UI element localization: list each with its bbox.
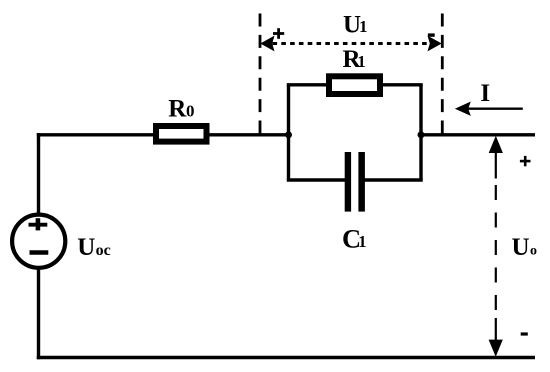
wire: parallel-section right branch vertical (419, 85, 422, 180)
svg-text:0: 0 (186, 101, 195, 120)
voltage source plus sign (29, 223, 48, 227)
svg-text:1: 1 (357, 52, 366, 71)
plus sign right (520, 160, 531, 163)
U1 arrowhead right (428, 36, 442, 52)
U1 arrowhead left (260, 36, 274, 52)
node: right junction dot (418, 131, 425, 138)
Uo arrow up head (489, 136, 503, 153)
resistor R1 (329, 76, 380, 94)
Uo arrow down head (489, 340, 503, 357)
wire: parallel-section left branch vertical (287, 85, 290, 180)
minus sign right (521, 332, 528, 335)
plus sign near left terminal (273, 32, 284, 35)
wire: bottom return wire (37, 356, 535, 360)
voltage source U_oc circle (12, 215, 65, 268)
wire: left vertical lower (source bottom to bottom corner) (37, 266, 40, 359)
svg-text:U: U (77, 234, 95, 261)
svg-text:oc: oc (96, 242, 111, 259)
resistor R0 (156, 126, 207, 142)
dashed terminal line left (259, 14, 262, 135)
svg-text:1: 1 (358, 232, 366, 251)
svg-text:1: 1 (359, 17, 368, 36)
dashed terminal line right (441, 14, 444, 135)
svg-text:o: o (530, 243, 537, 258)
svg-text:U: U (512, 234, 530, 261)
dotted U1 measurement line (273, 42, 431, 45)
svg-text:I: I (480, 80, 490, 107)
current I arrowhead (455, 102, 471, 116)
voltage source minus sign (30, 250, 49, 255)
svg-text:R: R (168, 96, 187, 123)
wire: main top wire right segment (right junction to right edge) (421, 133, 535, 136)
Uo arrow dashed shaft (495, 185, 497, 311)
node: left junction dot (285, 131, 292, 138)
wire: bottom branch right segment from capacitor (364, 178, 423, 181)
Uo arrow upper solid shaft (495, 151, 497, 179)
Uo arrow lower solid shaft (495, 318, 497, 343)
capacitor C1 plates (345, 152, 351, 212)
wire: main top wire left segment (left corner to left junction, behind R0) (37, 133, 289, 136)
wire: bottom branch left segment to capacitor (287, 178, 346, 181)
wire: left vertical upper (top corner to source top) (37, 133, 40, 215)
current I arrow line (468, 107, 523, 109)
wire: top branch horizontal (through R1, box drawn on top) (287, 83, 423, 86)
